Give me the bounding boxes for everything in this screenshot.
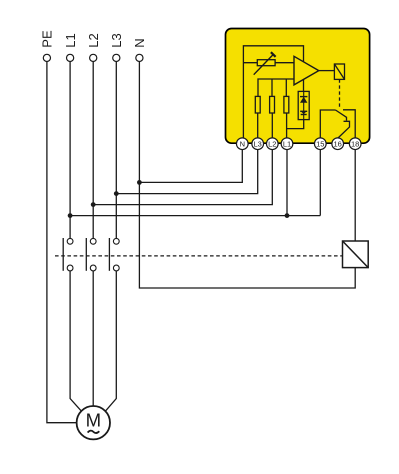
svg-text:M: M [86, 409, 102, 430]
label N [132, 38, 147, 47]
potentiometer P1 [254, 52, 276, 74]
terminal PE [43, 54, 50, 61]
module terminal L2 [266, 138, 278, 150]
svg-text:L2: L2 [268, 139, 276, 148]
terminal L3 [113, 54, 120, 61]
svg-text:15: 15 [316, 139, 324, 148]
junction L2 branch [91, 202, 96, 207]
terminal N [136, 54, 143, 61]
wire L1 to 15 [70, 215, 320, 217]
module terminal L3 [252, 138, 264, 150]
wire PE bus [47, 62, 77, 423]
svg-text:16: 16 [334, 139, 342, 148]
wire R1 to L3 terminal [257, 113, 259, 138]
contactor contact K1 L2 [86, 238, 96, 271]
wire R2 drop [271, 79, 273, 96]
relay contact 18 lead [343, 110, 355, 138]
wire R2 to L2 terminal [271, 113, 273, 138]
wire suppressor to L1 lead [287, 120, 304, 129]
svg-text:18: 18 [351, 139, 359, 148]
svg-text:PE: PE [40, 30, 55, 48]
resistor R2 [270, 96, 275, 113]
contactor contact K1 L3 [109, 238, 119, 271]
wire resistor bus [258, 79, 294, 96]
resistor R1 [255, 96, 260, 113]
wire L2 terminal branch [93, 150, 272, 205]
svg-text:N: N [240, 139, 245, 148]
wire L1 bus upper [69, 62, 71, 239]
resistor R3 [284, 96, 289, 113]
svg-text:L3: L3 [254, 139, 262, 148]
label L3 [109, 33, 124, 47]
relay contact 15 lead [320, 110, 335, 138]
svg-text:L3: L3 [109, 33, 124, 47]
svg-text:L2: L2 [86, 33, 101, 47]
mechanical link relay dashed [339, 79, 341, 107]
wire L2 bus lower [92, 271, 94, 406]
wire L3 bus lower [106, 271, 117, 411]
wire 15 terminal down [319, 150, 321, 216]
suppressor D1 box [298, 91, 309, 119]
label L1 [63, 33, 78, 47]
wire N terminal branch [139, 150, 242, 183]
junction L1 branch [68, 213, 73, 218]
wire L1 bus lower [70, 271, 81, 411]
module terminal N [236, 138, 248, 150]
module terminal 18 [349, 138, 361, 150]
wire 18 to coil [354, 150, 356, 242]
junction N branch [137, 180, 142, 185]
relay contact 16 lead [338, 121, 350, 138]
wire L2 bus upper [92, 62, 94, 239]
wire L3 bus upper [115, 62, 117, 239]
internal supply rail [243, 46, 303, 138]
op-amp U1 [294, 56, 319, 85]
motor M1 [77, 406, 110, 439]
module terminal 15 [314, 138, 326, 150]
wire R3 drop [285, 79, 287, 96]
svg-text:L1: L1 [63, 33, 78, 47]
svg-text:L1: L1 [283, 139, 291, 148]
mechanical link dashed [55, 255, 343, 257]
label PE [40, 30, 55, 48]
label L2 [86, 33, 101, 47]
relay contact blade [336, 110, 347, 121]
wire op-amp output [319, 70, 335, 72]
wire L1 terminal branch [286, 150, 288, 216]
terminal L1 [67, 54, 74, 61]
wire L3 terminal branch [116, 150, 257, 194]
svg-text:N: N [132, 38, 147, 47]
module terminal 16 [332, 138, 344, 150]
relay module yellow box [226, 29, 370, 144]
module terminal L1 [281, 138, 293, 150]
contactor coil K1 [343, 241, 369, 268]
wire R3 to L1 terminal [286, 113, 288, 138]
terminal L2 [90, 54, 97, 61]
junction L3 branch [114, 191, 119, 196]
relay coil RL1 [334, 64, 344, 79]
contactor contact K1 L1 [63, 238, 73, 271]
junction L1 terminal [285, 213, 290, 218]
wire pot input [243, 62, 294, 64]
wire N bus [139, 62, 355, 288]
